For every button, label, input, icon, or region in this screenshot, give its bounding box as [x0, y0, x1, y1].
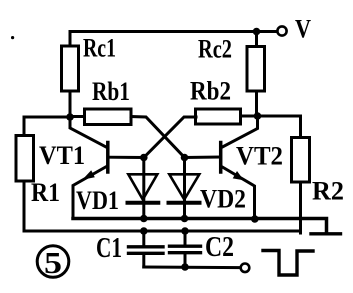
svg-text:VD2: VD2 [200, 185, 246, 214]
svg-text:Rc1: Rc1 [83, 33, 116, 62]
svg-text:Rb1: Rb1 [92, 77, 130, 106]
svg-text:5: 5 [44, 245, 62, 280]
svg-text:VD1: VD1 [76, 186, 119, 215]
svg-text:C2: C2 [205, 232, 234, 263]
svg-text:C1: C1 [96, 233, 122, 264]
svg-text:R2: R2 [312, 177, 344, 206]
svg-text:VT1: VT1 [39, 141, 85, 170]
svg-text:V: V [295, 15, 311, 44]
svg-text:Rc2: Rc2 [198, 34, 232, 63]
svg-text:R1: R1 [31, 178, 60, 207]
svg-text:VT2: VT2 [236, 141, 283, 170]
svg-text:Rb2: Rb2 [190, 77, 231, 106]
